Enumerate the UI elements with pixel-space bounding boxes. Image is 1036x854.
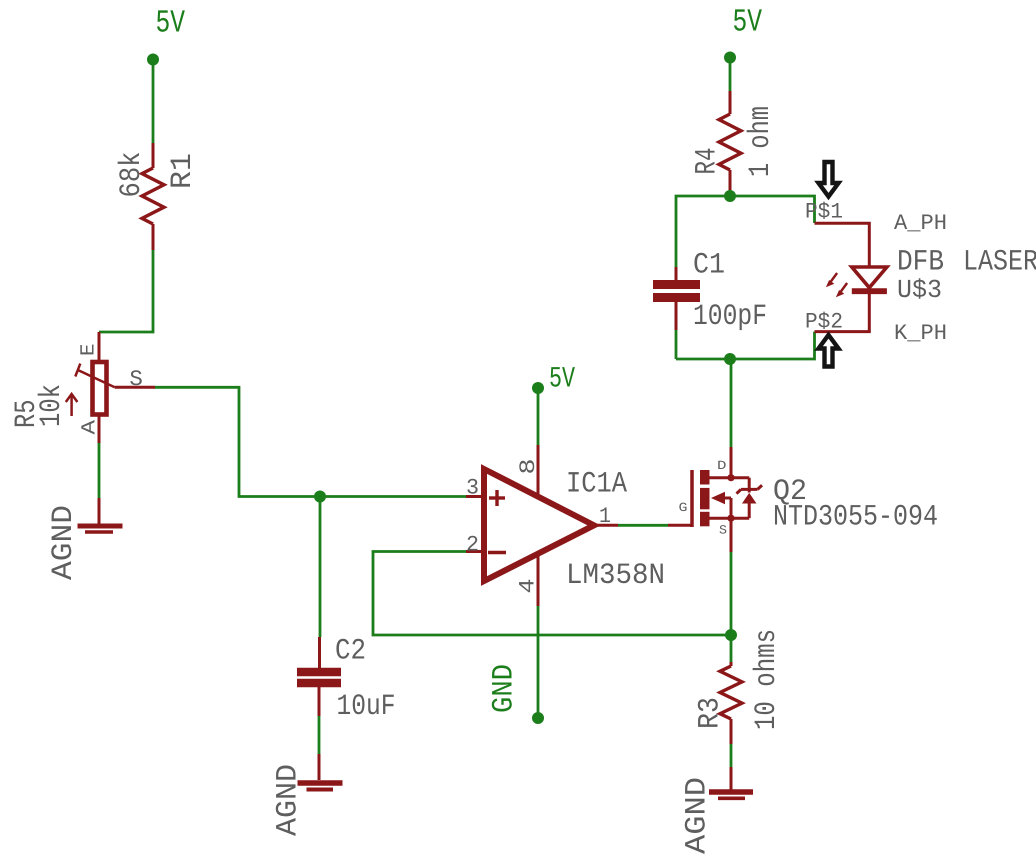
wire top rail <box>676 196 815 267</box>
resistor R4 <box>719 91 741 196</box>
wire pin4 to GND <box>537 606 540 718</box>
node feedback junction dot <box>725 629 737 641</box>
svg-text:10 ohms: 10 ohms <box>749 629 783 730</box>
ground AGND (R3) <box>709 767 753 798</box>
ground AGND (left) <box>78 498 123 532</box>
svg-text:4: 4 <box>516 579 541 594</box>
svg-text:8: 8 <box>516 459 541 475</box>
ground AGND (C2) <box>298 754 343 790</box>
transistor Q2 <box>668 470 762 527</box>
wire junction to C2 <box>319 497 322 638</box>
svg-text:R4: R4 <box>690 148 724 175</box>
op-amp IC1A <box>466 445 618 606</box>
svg-text:G: G <box>679 501 688 515</box>
node bottom rail dot <box>724 353 736 365</box>
capacitor C1 <box>653 267 700 330</box>
svg-text:C1: C1 <box>693 248 725 282</box>
svg-text:IC1A: IC1A <box>566 467 627 501</box>
svg-text:100pF: 100pF <box>693 299 767 333</box>
wire R5 A to AGND <box>98 443 101 498</box>
node junction dot (pin3/C2) <box>314 491 326 503</box>
capacitor C2 <box>297 637 341 716</box>
svg-text:AGND: AGND <box>271 764 305 836</box>
wire source down <box>730 518 733 552</box>
resistor R1 <box>142 143 164 250</box>
svg-text:K_PH: K_PH <box>894 321 947 346</box>
node 5V dot (right) <box>724 52 736 64</box>
svg-text:E: E <box>78 344 101 357</box>
svg-text:C2: C2 <box>335 634 366 668</box>
wire 5V to pin8 <box>537 388 540 445</box>
svg-text:5V: 5V <box>156 5 186 42</box>
svg-text:S: S <box>719 524 727 538</box>
wire 5V to R1 <box>152 60 155 144</box>
wire feedback pin2 to source node <box>373 552 731 636</box>
svg-text:P$1: P$1 <box>805 200 843 225</box>
wire bottom rail <box>676 332 815 359</box>
svg-text:LASER: LASER <box>963 245 1036 279</box>
svg-text:LM358N: LM358N <box>566 558 665 592</box>
svg-text:DFB: DFB <box>897 245 944 279</box>
svg-text:5V: 5V <box>733 4 763 41</box>
svg-text:NTD3055-094: NTD3055-094 <box>773 500 938 534</box>
svg-text:U$3: U$3 <box>897 275 942 305</box>
svg-text:R3: R3 <box>693 697 727 729</box>
svg-text:S: S <box>129 367 143 392</box>
wire C1 bottom <box>675 330 678 359</box>
wire opamp out to gate <box>618 524 668 527</box>
svg-text:3: 3 <box>466 476 479 501</box>
wire 5V to R4 <box>729 58 732 92</box>
svg-text:10uF: 10uF <box>337 689 396 723</box>
laser diode U$3 <box>815 223 887 331</box>
svg-text:5V: 5V <box>549 362 575 396</box>
svg-text:A: A <box>79 420 102 435</box>
wire R1 to R5 E <box>99 250 153 332</box>
arrow down (to P$1) <box>819 162 839 197</box>
potentiometer R5 <box>66 332 155 443</box>
svg-text:AGND: AGND <box>46 505 80 580</box>
svg-text:R1: R1 <box>165 153 199 189</box>
svg-text:1 ohm: 1 ohm <box>743 106 777 177</box>
node GND dot <box>532 712 544 724</box>
svg-text:10k: 10k <box>34 384 68 427</box>
wire R3 to AGND <box>730 744 733 767</box>
svg-text:2: 2 <box>466 533 479 558</box>
svg-text:GND: GND <box>487 664 521 713</box>
wire C2 to AGND <box>318 716 321 754</box>
node 5V dot (opamp) <box>532 382 544 394</box>
svg-text:1: 1 <box>599 504 611 529</box>
wire source node to R3 <box>730 635 733 662</box>
svg-text:D: D <box>717 459 727 473</box>
resistor R3 <box>720 662 742 744</box>
svg-text:A_PH: A_PH <box>894 211 947 236</box>
wire R5 S to opamp pin3 <box>155 387 466 496</box>
arrow up (from P$2) <box>819 335 839 367</box>
wire drain up to laser rail <box>730 359 733 447</box>
node 5V dot (left) <box>147 54 159 66</box>
svg-text:AGND: AGND <box>680 777 714 854</box>
svg-text:68k: 68k <box>114 152 148 198</box>
svg-text:P$2: P$2 <box>805 310 843 335</box>
node R4 bottom dot <box>724 190 736 202</box>
